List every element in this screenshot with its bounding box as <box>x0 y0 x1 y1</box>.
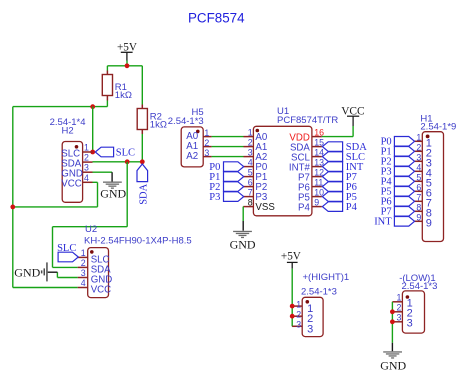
svg-text:2.54-1*3: 2.54-1*3 <box>301 287 337 298</box>
U1 pin 16 VDD <box>289 128 324 144</box>
svg-text:P3: P3 <box>209 192 220 203</box>
wire SLC horizontal <box>13 106 108 108</box>
wire R2 top <box>141 66 143 105</box>
net flag P4 (U1 right) <box>322 202 357 213</box>
wire A1 <box>212 146 244 148</box>
U1 pin 6 P2 <box>244 178 268 193</box>
net flag SLC (U1 right) <box>322 152 365 163</box>
U1 pin 2 A1 <box>244 138 268 153</box>
svg-text:P4: P4 <box>298 202 310 213</box>
svg-text:GND: GND <box>230 237 256 251</box>
H1 pin 4 <box>414 163 432 180</box>
svg-text:11: 11 <box>314 178 323 188</box>
svg-text:A2: A2 <box>186 151 198 162</box>
svg-text:1: 1 <box>84 143 89 153</box>
svg-text:2: 2 <box>296 309 301 319</box>
wire R1 bottom <box>106 101 108 107</box>
svg-text:4: 4 <box>416 163 421 173</box>
ground (U2, rotated) <box>14 262 57 281</box>
U1 pin 14 SCL <box>291 148 324 164</box>
svg-text:4: 4 <box>81 278 86 288</box>
junction SDA-R2 <box>140 159 145 164</box>
net flag SDA (U1 right) <box>322 142 367 153</box>
wire top horizontal <box>107 65 142 67</box>
net flag P5 (U1 right) <box>322 192 356 203</box>
wire U1 VSS <box>242 207 244 221</box>
title text PCF8574 <box>188 11 245 26</box>
svg-text:6: 6 <box>248 178 253 188</box>
svg-text:+5V: +5V <box>117 41 137 53</box>
H1 pin 2 <box>414 143 432 160</box>
op-amp U1 outline <box>253 106 338 216</box>
wire +5V to HIGHT <box>292 269 302 327</box>
wire A2 <box>212 156 244 158</box>
-(LOW)1 pin 3 <box>392 313 412 330</box>
svg-text:GND: GND <box>100 187 126 201</box>
connector H5 outline <box>168 107 204 167</box>
svg-text:H2: H2 <box>62 126 74 137</box>
svg-text:INT: INT <box>374 217 392 228</box>
U1 pin 5 P1 <box>244 168 268 183</box>
svg-text:1: 1 <box>81 248 86 258</box>
svg-text:2.54-1*9: 2.54-1*9 <box>420 121 456 132</box>
junction SDA-branch <box>125 159 130 164</box>
ground (H2) <box>100 172 126 201</box>
net flag P7 (U1 right) <box>322 172 356 183</box>
power +5V (top) <box>117 41 137 60</box>
wire LOW to GND <box>391 302 393 343</box>
svg-text:5: 5 <box>248 168 253 178</box>
svg-text:1kΩ: 1kΩ <box>150 119 167 130</box>
svg-text:2: 2 <box>416 143 421 153</box>
svg-text:1: 1 <box>416 133 421 143</box>
net flag P7 (H1) <box>381 207 415 218</box>
resistor R1 <box>102 71 132 101</box>
H2 pin 2 SDA <box>61 153 92 170</box>
connector H1 outline <box>420 114 456 242</box>
svg-text:1: 1 <box>296 299 301 309</box>
U1 pin 3 A2 <box>244 148 268 163</box>
net flag P6 (H1) <box>381 197 415 208</box>
svg-text:PCF8574: PCF8574 <box>188 11 245 26</box>
svg-text:VCC: VCC <box>341 105 364 117</box>
U2 pin 2 SDA <box>78 258 111 276</box>
net flag SDA (vertical) <box>137 164 149 205</box>
svg-text:3: 3 <box>296 320 301 330</box>
H1 pin 3 <box>414 153 432 170</box>
net flag P6 (U1 right) <box>322 182 356 193</box>
wire R2 bottom <box>141 134 143 162</box>
U1 pin 10 P5 <box>298 188 324 204</box>
H1 pin 7 <box>414 193 432 210</box>
junction HIGHT pin2 <box>290 314 295 319</box>
H1 pin 9 <box>414 213 432 230</box>
svg-text:2: 2 <box>396 303 401 313</box>
svg-text:9: 9 <box>426 218 432 230</box>
junction SLC <box>90 104 95 109</box>
svg-text:1: 1 <box>204 128 209 138</box>
net flag SLC (U2) <box>57 243 78 262</box>
svg-text:3: 3 <box>84 163 89 173</box>
H2 pin 3 GND <box>61 163 92 180</box>
svg-text:VCC: VCC <box>91 285 111 296</box>
svg-text:3: 3 <box>416 153 421 163</box>
wire to U2 VCC <box>13 287 78 289</box>
svg-text:7: 7 <box>248 188 253 198</box>
connector +(HIGHT)1 outline <box>301 272 349 336</box>
net flag P5 (H1) <box>381 187 415 198</box>
svg-text:3: 3 <box>307 323 313 335</box>
wire +5V stub <box>126 61 128 66</box>
U1 pin 8 VSS <box>244 198 276 213</box>
U1 pin 4 P0 <box>244 158 268 173</box>
svg-text:2: 2 <box>81 258 86 268</box>
net flag P2 (H1) <box>381 157 415 168</box>
svg-text:3: 3 <box>248 148 253 158</box>
junction LOW pin2 <box>390 309 395 314</box>
svg-text:5: 5 <box>416 173 421 183</box>
svg-text:2.54-1*3: 2.54-1*3 <box>168 116 204 127</box>
U2 pin 3 GND <box>78 268 113 286</box>
wire VCC to pin16 <box>322 126 353 137</box>
-(LOW)1 pin 2 <box>392 303 412 320</box>
+(HIGHT)1 pin 2 <box>292 309 313 325</box>
svg-text:2: 2 <box>248 138 253 148</box>
wire SDA to U2 <box>53 162 128 268</box>
H1 pin 5 <box>414 173 432 190</box>
svg-text:VCC: VCC <box>61 179 81 190</box>
U2 pin 1 SLC <box>78 248 110 266</box>
wire H2 GND <box>93 171 113 173</box>
H2 pin 4 VCC <box>61 173 92 190</box>
svg-text:9: 9 <box>314 198 319 208</box>
svg-text:3: 3 <box>407 318 413 330</box>
svg-text:6: 6 <box>416 183 421 193</box>
ground (LOW) <box>380 343 406 373</box>
wire SLC down to H2 pin1 <box>92 107 94 152</box>
ground (U1) <box>230 221 256 251</box>
svg-text:KH-2.54FH90-1X4P-H8.5: KH-2.54FH90-1X4P-H8.5 <box>84 236 192 247</box>
svg-text:U2: U2 <box>85 224 97 235</box>
wire R1 top <box>106 66 108 71</box>
junction top <box>125 63 130 68</box>
svg-text:1: 1 <box>396 293 401 303</box>
net flag P0 (U1 left) <box>209 162 243 173</box>
connector H2 outline <box>50 117 86 203</box>
U1 pin 7 P3 <box>244 188 268 203</box>
svg-text:VSS: VSS <box>255 202 275 213</box>
junction LOW pin3 <box>390 319 395 324</box>
svg-text:3: 3 <box>396 313 401 323</box>
resistor R2 <box>137 105 167 135</box>
junction VCC-left <box>10 205 15 210</box>
net flag P4 (H1) <box>381 177 415 188</box>
svg-text:2: 2 <box>204 138 209 148</box>
svg-text:PCF8574T/TR: PCF8574T/TR <box>277 115 338 126</box>
svg-text:GND: GND <box>380 358 406 372</box>
svg-text:1kΩ: 1kΩ <box>115 90 132 101</box>
net flag INT (U1 right) <box>322 162 363 173</box>
net flag P0 (H1) <box>381 137 415 148</box>
svg-text:7: 7 <box>416 193 421 203</box>
wire A0 <box>212 136 244 138</box>
U1 pin 9 P4 <box>298 198 322 214</box>
U2 pin 4 VCC <box>78 278 111 296</box>
svg-text:P4: P4 <box>346 202 358 213</box>
net flag P1 (H1) <box>381 147 415 158</box>
H5 pin 3 A2 <box>186 148 211 162</box>
power VCC <box>341 105 364 126</box>
svg-text:+(HIGHT)1: +(HIGHT)1 <box>303 272 350 283</box>
H1 pin 8 <box>414 203 432 220</box>
svg-text:1: 1 <box>248 128 253 138</box>
wire SDA horizontal <box>93 161 143 163</box>
U1 pin 12 P7 <box>298 168 324 184</box>
connector -(LOW)1 outline <box>399 273 437 333</box>
U1 pin 13 INT# <box>289 158 324 174</box>
svg-text:+5V: +5V <box>281 251 301 263</box>
svg-text:SDA: SDA <box>138 183 149 204</box>
H1 pin 1 <box>414 133 432 150</box>
wire U2 GND <box>57 272 77 277</box>
H5 pin 2 A1 <box>186 138 211 152</box>
H2 pin 1 SLC <box>61 143 92 160</box>
svg-text:SLC: SLC <box>116 148 135 159</box>
svg-text:4: 4 <box>248 158 253 168</box>
junction H2 pin1 <box>90 150 95 155</box>
svg-text:2: 2 <box>84 153 89 163</box>
U1 pin 11 P6 <box>298 178 323 194</box>
svg-text:3: 3 <box>81 268 86 278</box>
U1 pin 15 SDA <box>290 138 324 154</box>
connector U2 outline <box>84 224 192 298</box>
-(LOW)1 pin 1 <box>392 293 412 310</box>
svg-text:GND: GND <box>14 265 40 279</box>
svg-text:4: 4 <box>84 173 89 183</box>
svg-text:8: 8 <box>416 203 421 213</box>
H1 pin 6 <box>414 183 432 200</box>
net flag SLC (H2) <box>95 147 135 159</box>
+(HIGHT)1 pin 1 <box>292 299 313 315</box>
net flag P1 (U1 left) <box>209 172 243 183</box>
+(HIGHT)1 pin 3 <box>292 320 313 336</box>
svg-text:8: 8 <box>248 198 253 208</box>
svg-text:9: 9 <box>416 213 421 223</box>
svg-text:3: 3 <box>204 148 209 158</box>
power +5V (bottom) <box>281 251 301 269</box>
wire left vertical <box>12 107 14 288</box>
wire H2 VCC <box>13 182 98 207</box>
net flag P3 (H1) <box>381 167 415 178</box>
net flag P2 (U1 left) <box>209 182 243 193</box>
net flag P3 (U1 left) <box>209 192 243 203</box>
junction HIGHT pin1 <box>290 304 295 309</box>
net flag INT (H1) <box>374 217 414 228</box>
U1 pin 1 A0 <box>244 128 268 143</box>
H5 pin 1 A0 <box>186 128 211 142</box>
